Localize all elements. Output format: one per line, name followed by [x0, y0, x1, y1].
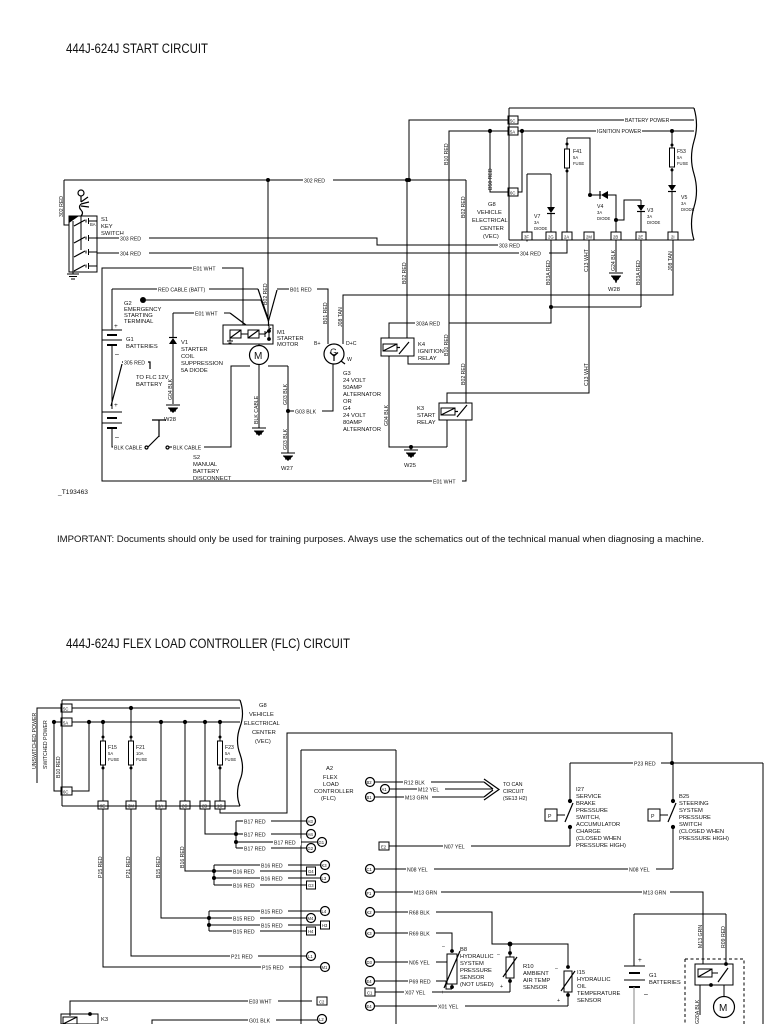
fuse F53 5A [670, 129, 689, 185]
relay K3 (FLC sheet, bottom left) [61, 1012, 120, 1024]
svg-text:2B: 2B [613, 235, 618, 240]
wire J08 TAN from VEC 2I to alternator D+C [338, 240, 674, 344]
FLC pin L2 [318, 1015, 327, 1024]
svg-text:A1: A1 [382, 787, 388, 792]
svg-text:M13 GRN: M13 GRN [405, 796, 428, 802]
fuse F41 5A [565, 138, 591, 232]
svg-text:G1: G1 [319, 840, 325, 845]
svg-text:M1: M1 [322, 965, 328, 970]
svg-text:E2: E2 [381, 845, 387, 850]
svg-text:B16 RED: B16 RED [180, 846, 186, 868]
svg-text:L3: L3 [322, 876, 327, 881]
FLC pin E4 and wire P69 RED to sensor B8 [366, 977, 453, 990]
svg-text:RELAY: RELAY [418, 356, 437, 362]
VEC G8 box (FLC sheet) outline with wavy right edge [62, 700, 243, 806]
svg-text:TERMINAL: TERMINAL [124, 319, 154, 325]
svg-text:V1: V1 [181, 340, 188, 346]
VEC2 terminal 6C [61, 787, 72, 795]
FLC pin M4 [307, 914, 316, 923]
svg-text:AIR TEMP: AIR TEMP [523, 978, 550, 984]
starter solenoid (FLC sheet) [695, 962, 733, 987]
svg-text:DIODE: DIODE [597, 216, 610, 221]
svg-text:3A: 3A [647, 214, 652, 219]
VEC bottom terminal 2G [546, 232, 556, 240]
svg-text:COIL: COIL [181, 354, 195, 360]
svg-text:6C: 6C [63, 790, 68, 795]
svg-text:M13 GRN: M13 GRN [698, 925, 704, 948]
svg-text:J08 TAN: J08 TAN [668, 251, 674, 271]
svg-text:E4: E4 [367, 979, 373, 984]
svg-text:VEHICLE: VEHICLE [249, 712, 274, 718]
key symbol for S1 [78, 190, 89, 216]
svg-text:FLEX: FLEX [323, 775, 338, 781]
svg-text:W27: W27 [281, 466, 293, 472]
VEC bottom terminal 2I [668, 232, 678, 240]
svg-text:G1: G1 [126, 337, 134, 343]
svg-text:FUSE: FUSE [136, 757, 147, 762]
diode V4 and step link [588, 191, 641, 222]
svg-text:B10 RED: B10 RED [56, 756, 62, 778]
svg-text:PRESSURE: PRESSURE [576, 808, 608, 814]
wire 305 RED tap TO FLC 12V BATTERY [111, 359, 169, 407]
FLC pin C1 square and wire X07 YEL to sensor R10 [365, 988, 510, 997]
svg-text:–: – [115, 434, 119, 441]
svg-text:SENSOR: SENSOR [523, 985, 547, 991]
svg-text:2G: 2G [548, 235, 554, 240]
svg-text:H4: H4 [308, 929, 314, 934]
label G3 G4 ALTERNATOR [343, 371, 381, 433]
wire 303 RED key switch to VEC 3F [97, 235, 528, 250]
wire BATTERY POWER bus [518, 116, 694, 124]
svg-text:OR: OR [343, 399, 352, 405]
svg-text:P: P [548, 814, 552, 820]
svg-text:MOTOR: MOTOR [277, 342, 298, 348]
wire 304 RED key switch to VEC 2A [97, 240, 567, 258]
svg-text:SENSOR: SENSOR [460, 975, 484, 981]
svg-text:G03 BLK: G03 BLK [283, 428, 289, 450]
switch S2 MANUAL BATTERY DISCONNECT [113, 366, 250, 482]
svg-text:B02 RED: B02 RED [461, 196, 467, 218]
sensor I15 HYDRAULIC OIL TEMPERATURE [555, 965, 621, 1006]
wire B16 RED group from VEC 2C to FLC pins [180, 809, 320, 890]
svg-text:B15 RED: B15 RED [233, 930, 255, 936]
svg-text:IMPORTANT: Documents should on: IMPORTANT: Documents should only be used… [57, 534, 704, 544]
svg-text:B03A RED: B03A RED [636, 260, 642, 285]
svg-text:+: + [441, 990, 444, 996]
svg-text:ACCUMULATOR: ACCUMULATOR [576, 822, 620, 828]
svg-text:C2: C2 [319, 1000, 325, 1005]
svg-text:M12 YEL: M12 YEL [418, 788, 439, 794]
svg-text:1C: 1C [217, 804, 222, 809]
svg-text:5C: 5C [63, 707, 68, 712]
svg-text:SYSTEM: SYSTEM [460, 961, 484, 967]
svg-text:G2: G2 [308, 846, 314, 851]
svg-text:BATTERY: BATTERY [136, 382, 162, 388]
svg-text:G03 BLK: G03 BLK [295, 410, 317, 416]
wire B02 RED vertical to K4 switch [402, 178, 409, 338]
FLC pin B2 [366, 778, 375, 787]
svg-text:HYDRAULIC: HYDRAULIC [577, 977, 611, 983]
svg-text:ELECTRICAL: ELECTRICAL [244, 721, 281, 727]
svg-text:B17 RED: B17 RED [274, 841, 296, 847]
FLC pin E4 hex and wire X01 YEL to sensor I15 [366, 1002, 569, 1011]
key switch S1 box [69, 216, 97, 272]
svg-text:STEERING: STEERING [679, 801, 709, 807]
svg-text:3A: 3A [534, 220, 539, 225]
svg-text:L1: L1 [308, 954, 313, 959]
VEC bottom terminal 2M [584, 232, 594, 240]
svg-text:80AMP: 80AMP [343, 420, 362, 426]
svg-text:N08 YEL: N08 YEL [629, 868, 650, 874]
svg-text:PRESSURE: PRESSURE [460, 968, 492, 974]
pressure switch I27 SERVICE BRAKE [545, 763, 626, 849]
svg-text:KEY: KEY [101, 224, 113, 230]
svg-text:SUPPRESSION: SUPPRESSION [181, 361, 223, 367]
sensor B8 HYDRAULIC SYSTEM PRESSURE (NOT USED) [441, 944, 494, 996]
svg-text:24 VOLT: 24 VOLT [343, 378, 366, 384]
svg-text:E01 WHT: E01 WHT [195, 312, 218, 318]
svg-text:BLK CABLE: BLK CABLE [254, 395, 260, 424]
battery G1 upper cells [102, 289, 122, 409]
svg-text:FUSE: FUSE [108, 757, 119, 762]
ground W28 below V1 [164, 405, 180, 423]
svg-text:444J-624J FLEX LOAD CONTROLLER: 444J-624J FLEX LOAD CONTROLLER (FLC) CIR… [66, 636, 350, 651]
svg-text:SWITCH,: SWITCH, [576, 815, 601, 821]
wire B01 RED starter stud to alternator B+ [269, 286, 330, 345]
wire switched power bus (5A row) [43, 720, 240, 791]
svg-text:I27: I27 [576, 787, 584, 793]
svg-text:B2: B2 [367, 780, 373, 785]
svg-text:RELAY: RELAY [417, 420, 436, 426]
svg-text:302 RED: 302 RED [304, 179, 325, 185]
starter motor M (FLC sheet) [714, 985, 735, 1018]
svg-text:P15 RED: P15 RED [98, 856, 104, 878]
svg-text:–: – [497, 952, 500, 958]
svg-text:G04 BLK: G04 BLK [384, 404, 390, 426]
wire unswitched power bus (5C row) [32, 708, 240, 783]
VEC2 bottom terminal 9E [98, 801, 108, 809]
svg-text:B25: B25 [679, 794, 689, 800]
wire 302 RED main battery line [59, 177, 466, 226]
svg-text:H4: H4 [308, 832, 314, 837]
svg-text:G8: G8 [259, 703, 267, 709]
svg-text:FUSE: FUSE [225, 757, 236, 762]
node junction B02 drop on 302 RED [266, 178, 270, 182]
svg-text:B50 RED: B50 RED [488, 168, 494, 190]
svg-text:K3: K3 [101, 1017, 108, 1023]
VEC bottom terminal 3F [522, 232, 532, 240]
VEC terminal 5C [508, 116, 518, 124]
FLC pin C2 [317, 997, 327, 1005]
FLC pin G3 [307, 881, 316, 889]
svg-text:B+: B+ [314, 341, 321, 347]
svg-text:M: M [719, 1003, 727, 1014]
battery G1 (FLC sheet) [624, 914, 726, 1024]
svg-text:(VEC): (VEC) [255, 739, 271, 745]
svg-text:FUSE: FUSE [677, 161, 688, 166]
fuse F21 10A [129, 706, 148, 801]
svg-text:S1: S1 [101, 217, 108, 223]
svg-text:IGNITION: IGNITION [418, 349, 444, 355]
svg-text:R09 RED: R09 RED [721, 926, 727, 948]
svg-text:M: M [254, 351, 262, 362]
svg-text:B15 RED: B15 RED [156, 856, 162, 878]
wire R09 RED battery to starter group [721, 914, 727, 964]
VEC2 bottom terminal 1C [215, 801, 225, 809]
FLC pin F1 and wire M13 GRN to starter group [366, 889, 705, 965]
FLC pin B1 [366, 793, 375, 802]
svg-text:2B: 2B [202, 804, 207, 809]
svg-text:G4: G4 [343, 406, 352, 412]
svg-text:B03A RED: B03A RED [546, 260, 552, 285]
svg-text:R10: R10 [523, 964, 534, 970]
svg-text:BLK CABLE: BLK CABLE [173, 446, 202, 452]
svg-text:BLK CABLE: BLK CABLE [114, 446, 143, 452]
svg-text:6C: 6C [510, 191, 515, 196]
FLC pin H3 square [321, 921, 330, 929]
svg-text:B16 RED: B16 RED [261, 864, 283, 870]
svg-text:SENSOR: SENSOR [577, 998, 601, 1004]
FLC pin E2 and wire N07 YEL to I27 [379, 842, 570, 851]
wire P15 RED from VEC 9E to FLC pin M1 [98, 809, 320, 972]
svg-text:P21 RED: P21 RED [126, 856, 132, 878]
svg-text:OIL: OIL [577, 984, 587, 990]
svg-text:DIODE: DIODE [681, 207, 694, 212]
svg-text:B15 RED: B15 RED [233, 917, 255, 923]
VEC terminal 5A [508, 127, 518, 135]
svg-text:2I: 2I [671, 235, 675, 240]
wire 5A to 6C inner link [518, 129, 524, 192]
svg-text:E01 WHT: E01 WHT [193, 267, 216, 273]
svg-text:W28: W28 [608, 287, 620, 293]
svg-text:UNSWITCHED POWER: UNSWITCHED POWER [32, 713, 38, 769]
svg-text:(CLOSED WHEN: (CLOSED WHEN [576, 836, 621, 842]
relay K3 START RELAY [417, 403, 472, 447]
wire R12 BLK to CAN [375, 779, 485, 787]
svg-text:B15 RED: B15 RED [261, 924, 283, 930]
svg-text:IGNITION POWER: IGNITION POWER [597, 129, 641, 135]
svg-text:G1: G1 [649, 973, 657, 979]
VEC2 drop to terminal 1A [159, 720, 163, 801]
starter solenoid M1 box [223, 325, 304, 348]
wire B02 RED drop to starter stud [263, 180, 269, 326]
wire C13 WHT from VEC 2M to relay K3 coil [447, 240, 590, 403]
svg-text:B17 RED: B17 RED [244, 820, 266, 826]
VEC G8 box outline (top edge, left edge, bottom edge, wavy right edge) [509, 108, 697, 240]
svg-text:C1: C1 [367, 991, 373, 996]
svg-text:M13 GRN: M13 GRN [643, 891, 666, 897]
svg-text:9E: 9E [100, 804, 105, 809]
svg-text:N07 YEL: N07 YEL [444, 845, 465, 851]
svg-text:G3: G3 [308, 883, 314, 888]
svg-text:X07 YEL: X07 YEL [405, 991, 425, 997]
svg-text:B02 RED: B02 RED [461, 363, 467, 385]
wire G24 BLK from VEC 2B to ground W28 [611, 240, 617, 272]
wire IGNITION POWER bus [518, 127, 694, 135]
wire G03 BLK alternator to junction [288, 365, 333, 416]
svg-text:S2: S2 [193, 455, 200, 461]
svg-text:+: + [114, 323, 118, 330]
svg-text:A2: A2 [326, 766, 333, 772]
svg-text:SERVICE: SERVICE [576, 794, 601, 800]
label S1 KEY SWITCH [101, 217, 124, 237]
FLC controller A2 box [301, 750, 396, 1024]
svg-text:SWITCH: SWITCH [679, 822, 702, 828]
svg-text:VEHICLE: VEHICLE [477, 210, 502, 216]
svg-text:L2: L2 [319, 1017, 324, 1022]
svg-text:PRESSURE: PRESSURE [679, 815, 711, 821]
svg-text:CIRCUIT: CIRCUIT [503, 789, 525, 795]
svg-text:P23 RED: P23 RED [634, 762, 656, 768]
FLC pin H4 square [307, 927, 316, 935]
svg-text:2C: 2C [182, 804, 187, 809]
svg-text:DIODE: DIODE [647, 220, 660, 225]
svg-text:G04 BLK: G04 BLK [168, 378, 174, 400]
wire M13 GRN to CAN [375, 794, 485, 802]
svg-text:B17 RED: B17 RED [244, 847, 266, 853]
VEC bottom terminal 2A [562, 232, 572, 240]
svg-text:5A: 5A [510, 130, 515, 135]
svg-text:BA: BA [90, 222, 96, 227]
svg-text:SYSTEM: SYSTEM [679, 808, 703, 814]
svg-text:B1: B1 [367, 795, 373, 800]
label G8 VEHICLE ELECTRICAL CENTER (VEC) FLC sheet [244, 703, 281, 745]
svg-text:P21 RED: P21 RED [231, 955, 253, 961]
svg-text:I15: I15 [577, 970, 585, 976]
svg-text:K2: K2 [367, 910, 373, 915]
wire G03 BLK starter to ground W27 [268, 366, 290, 453]
VEC2 terminal 5A [61, 718, 72, 726]
svg-text:TEMPERATURE: TEMPERATURE [577, 991, 621, 997]
ground W27 [281, 453, 295, 472]
wire G01 BLK to FLC pin L2 [152, 1017, 317, 1024]
svg-text:START: START [417, 413, 436, 419]
pressure switch B25 STEERING SYSTEM [648, 763, 729, 869]
svg-text:BRAKE: BRAKE [576, 801, 596, 807]
FLC pin K2 and wire R68 BLK to sensors [366, 908, 569, 968]
starter M ground (BLK CABLE) [252, 365, 266, 437]
svg-text:3A: 3A [597, 210, 602, 215]
label G1 BATTERIES [126, 337, 158, 350]
wire P23 RED [570, 760, 763, 768]
diode V5 [668, 185, 694, 232]
svg-text:–: – [555, 966, 558, 972]
terminal G2 EMERGENCY STARTING TERMINAL [124, 297, 269, 325]
svg-text:D+C: D+C [346, 341, 357, 347]
svg-text:TO FLC 12V: TO FLC 12V [136, 375, 169, 381]
svg-text:2M: 2M [586, 235, 592, 240]
FLC pin D3 and wire N05 YEL to sensor B8 wiper [366, 958, 448, 967]
relay K4 IGNITION RELAY [381, 338, 444, 362]
FLC pin A1 [381, 785, 390, 794]
svg-text:(NOT USED): (NOT USED) [460, 982, 494, 988]
wire B03A RED from VEC 2G to relay K4 coil [389, 240, 642, 338]
svg-text:G8: G8 [488, 202, 496, 208]
svg-text:P15 RED: P15 RED [262, 966, 284, 972]
svg-text:R69 BLK: R69 BLK [409, 932, 430, 938]
wire E01 WHT to suppression diode V1 [173, 310, 246, 326]
svg-text:BATTERIES: BATTERIES [126, 344, 158, 350]
wire 6C inner link to 5A [72, 720, 91, 791]
svg-text:5A DIODE: 5A DIODE [181, 368, 208, 374]
svg-text:W: W [347, 357, 352, 363]
wire G04 BLK relay K4 coil to ground [384, 356, 447, 447]
FLC pin H4 [307, 830, 316, 839]
svg-text:10A: 10A [136, 751, 144, 756]
svg-text:24 VOLT: 24 VOLT [343, 413, 366, 419]
svg-text:444J-624J START CIRCUIT: 444J-624J START CIRCUIT [66, 41, 208, 56]
wire B17 RED group from VEC 2B to FLC pins [205, 809, 317, 853]
starter group dashed enclosure [685, 959, 744, 1024]
svg-text:B10 RED: B10 RED [444, 143, 450, 165]
svg-text:303 RED: 303 RED [499, 244, 520, 250]
svg-text:(FLC): (FLC) [321, 796, 336, 802]
svg-text:2E: 2E [638, 235, 643, 240]
svg-text:B15 RED: B15 RED [261, 910, 283, 916]
VEC2 bottom terminal 3M [126, 801, 136, 809]
svg-text:W25: W25 [404, 463, 416, 469]
wire E03 WHT from relay K3 to FLC pin C2 [70, 998, 312, 1017]
svg-text:DISCONNECT: DISCONNECT [193, 476, 232, 482]
svg-text:+: + [638, 957, 642, 964]
svg-text:PRESSURE HIGH): PRESSURE HIGH) [679, 836, 729, 842]
svg-text:5A: 5A [63, 721, 68, 726]
svg-text:BATTERY POWER: BATTERY POWER [625, 118, 670, 124]
svg-text:–: – [442, 944, 445, 950]
svg-text:SWITCHED POWER: SWITCHED POWER [43, 720, 49, 769]
svg-text:3M: 3M [128, 804, 134, 809]
svg-text:TO CAN: TO CAN [503, 782, 523, 788]
svg-text:–: – [644, 991, 648, 998]
svg-text:BATTERY: BATTERY [193, 469, 219, 475]
svg-text:B16 RED: B16 RED [233, 870, 255, 876]
svg-text:5A: 5A [225, 751, 230, 756]
starter motor M circle [250, 345, 269, 365]
wire VEC 5C feed down to 302 RED [407, 120, 509, 182]
fuse F23 5A [218, 720, 237, 801]
svg-text:304 RED: 304 RED [120, 252, 141, 258]
svg-text:2A: 2A [564, 235, 569, 240]
svg-text:(VEC): (VEC) [483, 234, 499, 240]
FLC pin M1 [321, 963, 330, 972]
FLC pin K3 [321, 861, 330, 870]
svg-text:E01 WHT: E01 WHT [433, 480, 456, 486]
right edge power vertical to starter group [762, 763, 764, 1024]
svg-text:–: – [115, 351, 119, 358]
ground W25 [404, 445, 418, 469]
FLC pin G1 [318, 838, 327, 847]
svg-text:303 RED: 303 RED [120, 237, 141, 243]
svg-text:AMBIENT: AMBIENT [523, 971, 549, 977]
svg-text:B01 RED: B01 RED [323, 302, 329, 324]
svg-text:3F: 3F [524, 235, 529, 240]
svg-text:F1: F1 [367, 891, 373, 896]
svg-text:STARTER: STARTER [181, 347, 208, 353]
svg-text:50AMP: 50AMP [343, 385, 362, 391]
svg-text:305 RED: 305 RED [124, 361, 145, 367]
svg-text:FUSE: FUSE [573, 161, 584, 166]
svg-text:P: P [651, 814, 655, 820]
wire M12 YEL to CAN [390, 786, 494, 794]
wire E01 WHT loop (K3 switch output around to starter solenoid) [102, 265, 466, 486]
svg-text:L4: L4 [322, 909, 327, 914]
svg-text:DIODE: DIODE [534, 226, 547, 231]
svg-text:CENTER: CENTER [480, 226, 504, 232]
svg-text:H3: H3 [322, 923, 328, 928]
svg-text:(CLOSED WHEN: (CLOSED WHEN [679, 829, 724, 835]
VEC2 bottom terminal 2C [180, 801, 190, 809]
sensor R10 AMBIENT AIR TEMP [497, 944, 550, 992]
